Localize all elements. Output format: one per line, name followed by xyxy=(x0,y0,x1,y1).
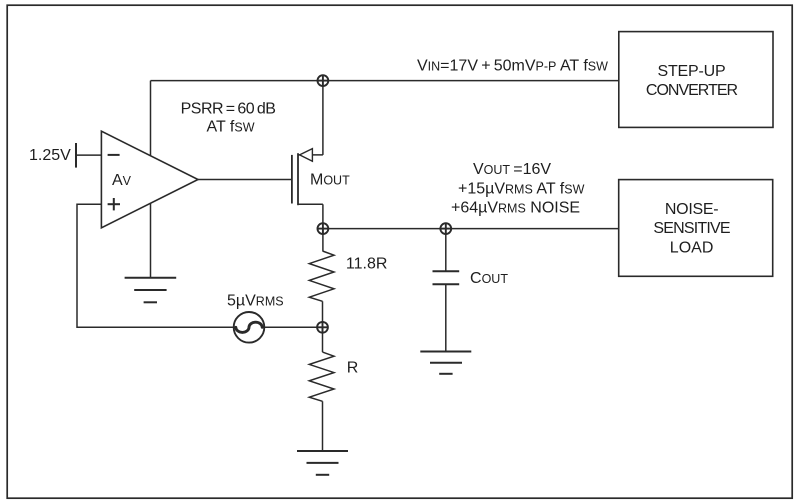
ground: op-amp supply ground xyxy=(125,278,177,303)
svg-text:CONVERTER: CONVERTER xyxy=(646,82,738,99)
svg-text:+15µVRMS AT fSW: +15µVRMS AT fSW xyxy=(458,181,585,198)
wire: feedback node down to resistor R xyxy=(322,327,324,352)
block: NOISE-SENSITIVE LOAD box xyxy=(619,180,773,277)
wire: MOUT drain down to VOUT node xyxy=(322,204,324,228)
transistor MOUT gate line xyxy=(291,155,293,204)
wire: VOUT node down to resistor 11.8R xyxy=(322,229,324,251)
wire: COUT to ground xyxy=(445,284,447,351)
wire: VOUT rail to load xyxy=(323,228,619,230)
svg-text:NOISE-: NOISE- xyxy=(665,201,718,218)
resistor R xyxy=(309,352,334,401)
svg-text:STEP-UP: STEP-UP xyxy=(658,63,726,80)
svg-text:R: R xyxy=(347,360,359,377)
svg-text:+64µVRMS NOISE: +64µVRMS NOISE xyxy=(451,200,580,217)
node: feedback junction xyxy=(317,321,329,333)
noise source VN (5uVrms) xyxy=(234,312,265,343)
wire: MOUT source up to VIN rail xyxy=(322,81,324,155)
svg-text:PSRR = 60 dB: PSRR = 60 dB xyxy=(181,100,276,117)
wire: 11.8R to feedback node xyxy=(322,301,324,327)
wire: feedback from noninverting input down to noise source xyxy=(77,204,234,327)
svg-text:11.8R: 11.8R xyxy=(346,255,388,272)
transistor MOUT channel line xyxy=(297,153,299,205)
block: STEP-UP CONVERTER box xyxy=(619,32,773,128)
capacitor COUT top plate xyxy=(433,270,460,272)
resistor 11.8R xyxy=(309,251,334,301)
svg-text:VOUT =16V: VOUT =16V xyxy=(473,161,551,178)
wire: R down to ground xyxy=(322,401,324,451)
transistor MOUT drain lead xyxy=(298,203,323,205)
wire: 1.25V source to inverting input xyxy=(76,154,101,156)
wire: top VIN rail xyxy=(151,80,619,82)
svg-text:AT fSW: AT fSW xyxy=(207,119,255,136)
svg-text:SENSITIVE: SENSITIVE xyxy=(653,220,730,237)
ground: below resistor R xyxy=(297,451,348,475)
wire: op-amp output to MOSFET gate xyxy=(198,179,292,181)
op-amp U1 (Av) xyxy=(101,131,198,228)
wire: noise source to feedback node xyxy=(264,326,316,328)
transistor MOUT source lead xyxy=(298,154,323,156)
svg-text:AV: AV xyxy=(112,172,132,189)
node: VIN junction xyxy=(317,75,329,87)
op-amp U1 minus input symbol xyxy=(108,154,120,156)
source V1 terminal bar (1.25V) xyxy=(75,143,77,168)
wire: VOUT node down to COUT xyxy=(445,229,447,272)
ground: below COUT xyxy=(420,352,471,374)
node: COUT junction xyxy=(440,223,452,235)
svg-text:LOAD: LOAD xyxy=(670,240,714,257)
capacitor COUT bottom plate xyxy=(433,283,460,285)
svg-text:5µVRMS: 5µVRMS xyxy=(227,292,284,309)
wire: op-amp supply drop from VIN rail to ground xyxy=(150,81,152,278)
node: VOUT junction at divider xyxy=(317,223,329,235)
op-amp U1 plus input symbol xyxy=(108,203,120,205)
svg-text:MOUT: MOUT xyxy=(310,171,350,188)
svg-text:1.25V: 1.25V xyxy=(29,147,71,164)
svg-text:VIN=17V + 50mVP-P AT fSW: VIN=17V + 50mVP-P AT fSW xyxy=(417,57,608,74)
transistor MOUT source arrow xyxy=(300,149,313,162)
svg-text:COUT: COUT xyxy=(470,270,508,287)
